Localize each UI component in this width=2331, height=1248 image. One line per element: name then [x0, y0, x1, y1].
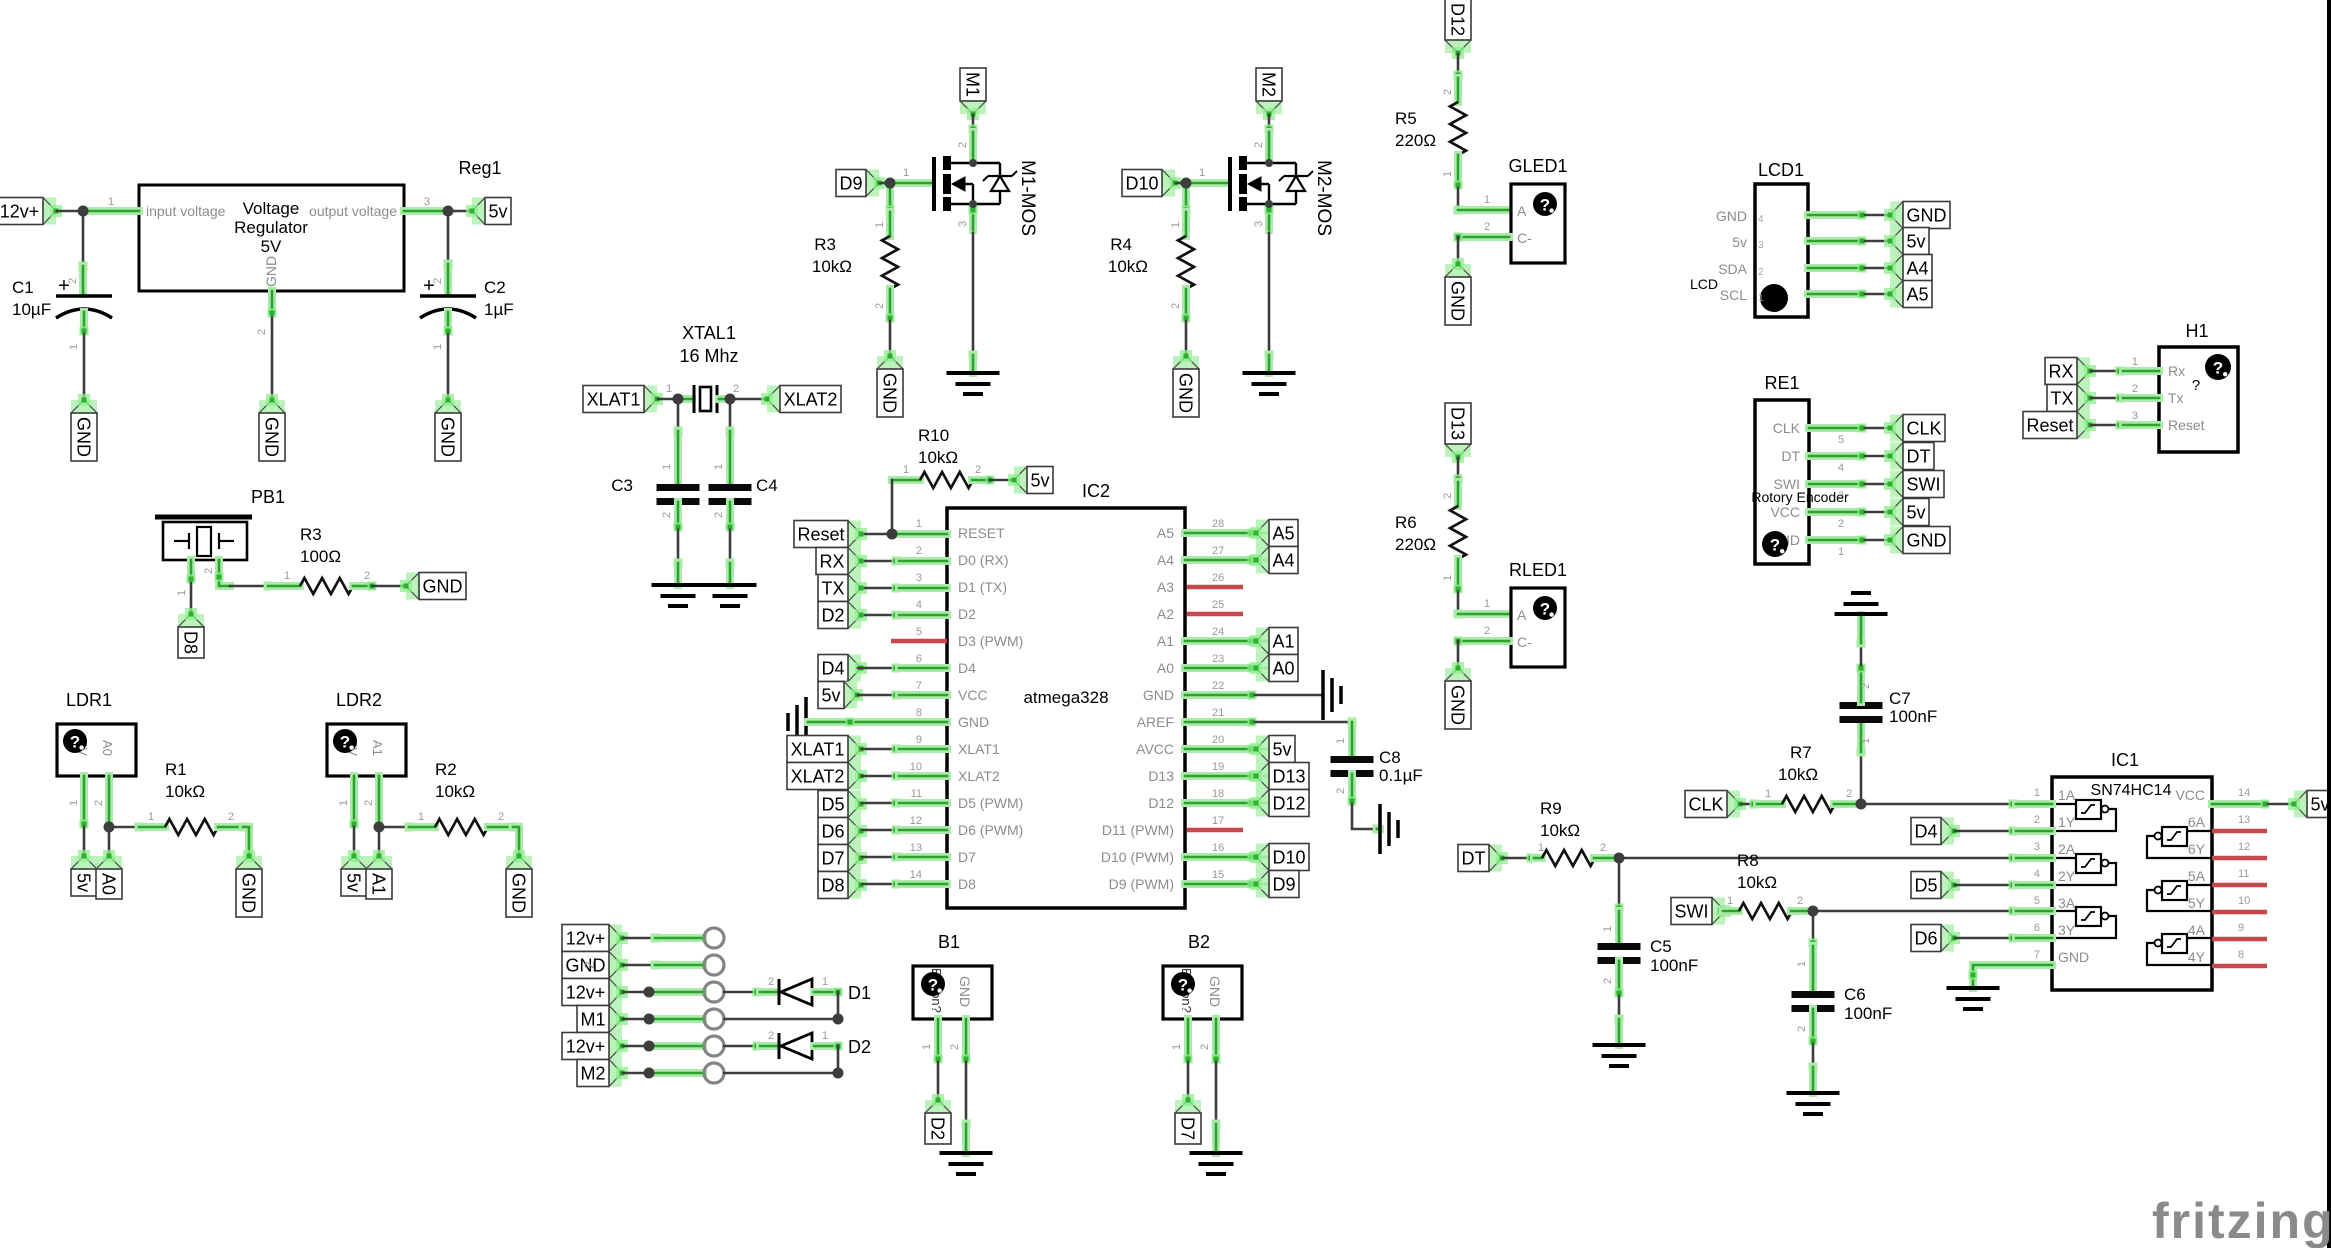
svg-text:?: ?	[1770, 536, 1780, 555]
svg-text:4: 4	[2034, 868, 2040, 880]
svg-text:2: 2	[768, 1030, 774, 1042]
svg-text:1: 1	[1484, 194, 1490, 206]
svg-text:2: 2	[1758, 267, 1764, 278]
svg-text:D10 (PWM): D10 (PWM)	[1101, 849, 1174, 865]
svg-text:23: 23	[1212, 653, 1224, 665]
svg-text:1: 1	[666, 383, 672, 395]
svg-text:1: 1	[176, 590, 188, 596]
svg-text:12: 12	[910, 815, 922, 827]
svg-text:19: 19	[1212, 761, 1224, 773]
svg-text:2: 2	[228, 811, 234, 823]
svg-text:PB1: PB1	[251, 487, 285, 507]
svg-text:CLK: CLK	[1688, 795, 1723, 815]
svg-text:12v+: 12v+	[566, 983, 606, 1003]
svg-text:A5: A5	[1157, 525, 1174, 541]
svg-text:GND: GND	[957, 976, 973, 1007]
svg-text:22: 22	[1212, 680, 1224, 692]
svg-text:C4: C4	[756, 476, 778, 495]
svg-text:10kΩ: 10kΩ	[1737, 873, 1777, 892]
svg-text:Rotory Encoder: Rotory Encoder	[1751, 489, 1849, 505]
svg-text:SDA: SDA	[1718, 261, 1747, 277]
svg-text:5v: 5v	[1906, 503, 1925, 523]
svg-text:4: 4	[916, 599, 922, 611]
svg-text:atmega328: atmega328	[1023, 688, 1108, 707]
svg-text:A0: A0	[1157, 660, 1174, 676]
svg-text:5V: 5V	[261, 237, 282, 256]
svg-text:D1 (TX): D1 (TX)	[958, 579, 1007, 595]
svg-text:0.1µF: 0.1µF	[1379, 766, 1423, 785]
svg-text:2Y: 2Y	[2058, 868, 2076, 884]
svg-text:2: 2	[1253, 142, 1265, 148]
svg-text:1: 1	[1727, 895, 1733, 907]
svg-text:M2: M2	[580, 1064, 605, 1084]
svg-text:1: 1	[874, 222, 886, 228]
svg-text:12v+: 12v+	[566, 929, 606, 949]
svg-text:D7: D7	[1178, 1117, 1198, 1140]
svg-text:2: 2	[581, 961, 597, 969]
svg-text:?: ?	[70, 733, 80, 752]
svg-text:DT: DT	[1781, 448, 1800, 464]
svg-text:fritzing: fritzing	[2152, 1193, 2331, 1248]
svg-text:2: 2	[916, 545, 922, 557]
svg-text:D4: D4	[1914, 822, 1937, 842]
svg-text:VCC: VCC	[2175, 787, 2205, 803]
svg-text:GND: GND	[880, 373, 900, 413]
svg-text:D3 (PWM): D3 (PWM)	[958, 633, 1023, 649]
svg-text:A5: A5	[1272, 524, 1294, 544]
svg-text:1: 1	[1602, 926, 1614, 932]
svg-text:1: 1	[68, 344, 80, 350]
svg-text:SN74HC14: SN74HC14	[2091, 782, 2172, 799]
svg-text:RE1: RE1	[1764, 373, 1799, 393]
svg-text:D11 (PWM): D11 (PWM)	[1102, 822, 1174, 838]
svg-text:18: 18	[1212, 788, 1224, 800]
svg-text:1µF: 1µF	[484, 300, 514, 319]
svg-text:5v: 5v	[74, 873, 94, 892]
svg-text:XLAT1: XLAT1	[587, 390, 641, 410]
svg-text:21: 21	[1212, 707, 1224, 719]
svg-text:SCL: SCL	[1720, 287, 1747, 303]
svg-text:M2-MOS: M2-MOS	[1313, 160, 1334, 236]
svg-text:1: 1	[148, 811, 154, 823]
svg-text:M1-MOS: M1-MOS	[1017, 160, 1038, 236]
svg-text:1: 1	[1538, 842, 1544, 854]
svg-text:D12: D12	[1272, 794, 1305, 814]
svg-text:2: 2	[498, 811, 504, 823]
svg-text:5: 5	[2034, 895, 2040, 907]
svg-text:M2: M2	[1259, 72, 1279, 97]
svg-text:DT: DT	[1907, 447, 1931, 467]
svg-text:GND: GND	[263, 256, 279, 287]
svg-text:RESET: RESET	[958, 525, 1005, 541]
svg-text:D2: D2	[848, 1037, 871, 1057]
svg-text:Reset: Reset	[2026, 416, 2073, 436]
svg-text:?: ?	[1540, 196, 1550, 215]
svg-text:Reset: Reset	[797, 525, 844, 545]
svg-text:16 Mhz: 16 Mhz	[679, 346, 738, 366]
svg-text:VCC: VCC	[958, 687, 988, 703]
svg-text:9: 9	[2238, 922, 2244, 934]
svg-text:5: 5	[1838, 434, 1844, 446]
svg-text:1: 1	[713, 464, 725, 470]
svg-text:R5: R5	[1395, 109, 1417, 128]
svg-text:R10: R10	[918, 426, 949, 445]
svg-text:D8: D8	[181, 631, 201, 654]
svg-text:A1: A1	[370, 740, 385, 756]
svg-text:GND: GND	[438, 417, 458, 457]
svg-text:17: 17	[1212, 815, 1224, 827]
svg-text:D6: D6	[821, 822, 844, 842]
svg-text:?: ?	[1540, 600, 1550, 619]
svg-text:1: 1	[108, 196, 114, 208]
svg-text:2: 2	[874, 303, 886, 309]
svg-text:R8: R8	[1737, 851, 1759, 870]
svg-text:3: 3	[957, 221, 969, 227]
svg-text:100Ω: 100Ω	[300, 547, 341, 566]
svg-text:3: 3	[1758, 240, 1764, 251]
svg-text:2: 2	[1442, 493, 1454, 499]
svg-text:2: 2	[1199, 1044, 1211, 1050]
svg-text:C6: C6	[1844, 985, 1866, 1004]
svg-text:B1: B1	[938, 932, 960, 952]
svg-text:D7: D7	[958, 849, 976, 865]
svg-text:CLK: CLK	[1773, 420, 1801, 436]
svg-text:11: 11	[2238, 868, 2249, 880]
svg-text:SWI: SWI	[1907, 475, 1941, 495]
svg-text:1: 1	[1335, 738, 1347, 744]
svg-text:TX: TX	[821, 579, 844, 599]
svg-text:220Ω: 220Ω	[1395, 131, 1436, 150]
svg-text:8: 8	[2238, 949, 2244, 961]
svg-text:D2: D2	[928, 1117, 948, 1140]
svg-text:1: 1	[903, 167, 909, 179]
svg-text:10: 10	[2238, 895, 2250, 907]
svg-text:A5: A5	[1906, 285, 1928, 305]
svg-text:Voltage: Voltage	[243, 199, 300, 218]
svg-text:RX: RX	[819, 552, 844, 572]
svg-text:1: 1	[1484, 598, 1490, 610]
svg-text:GLED1: GLED1	[1508, 156, 1567, 176]
svg-text:D13: D13	[1272, 767, 1305, 787]
svg-text:3: 3	[424, 196, 430, 208]
svg-text:3: 3	[2132, 410, 2138, 422]
svg-text:6A: 6A	[2188, 814, 2206, 830]
svg-text:SWI: SWI	[1675, 902, 1709, 922]
svg-text:GND: GND	[239, 873, 259, 913]
svg-text:+: +	[423, 275, 435, 297]
svg-text:XLAT2: XLAT2	[791, 767, 845, 787]
svg-text:2: 2	[2034, 814, 2040, 826]
svg-text:3Y: 3Y	[2058, 922, 2076, 938]
svg-text:2: 2	[1335, 788, 1347, 794]
svg-text:2: 2	[661, 512, 673, 518]
svg-text:1: 1	[68, 800, 80, 806]
svg-text:6: 6	[916, 653, 922, 665]
svg-text:1: 1	[1765, 788, 1771, 800]
svg-text:D12: D12	[1148, 795, 1174, 811]
svg-text:100nF: 100nF	[1844, 1004, 1892, 1023]
svg-text:1: 1	[338, 800, 350, 806]
svg-text:7: 7	[2034, 949, 2040, 961]
svg-text:A: A	[1517, 203, 1527, 219]
svg-text:A0: A0	[99, 873, 119, 895]
svg-text:100nF: 100nF	[1650, 956, 1698, 975]
svg-text:?: ?	[2192, 377, 2200, 394]
svg-text:1: 1	[1442, 171, 1454, 177]
svg-text:C-: C-	[1517, 634, 1532, 650]
svg-text:A2: A2	[1157, 606, 1174, 622]
svg-text:D9 (PWM): D9 (PWM)	[1109, 876, 1174, 892]
svg-text:TX: TX	[2050, 389, 2073, 409]
svg-text:4A: 4A	[2188, 922, 2206, 938]
svg-text:2: 2	[2132, 383, 2138, 395]
svg-text:D10: D10	[1272, 848, 1305, 868]
svg-text:5v: 5v	[344, 873, 364, 892]
svg-text:A1: A1	[369, 873, 389, 895]
svg-text:GND: GND	[1716, 208, 1747, 224]
svg-text:9: 9	[916, 734, 922, 746]
svg-text:5: 5	[916, 626, 922, 638]
svg-text:12v+: 12v+	[0, 202, 39, 222]
svg-text:28: 28	[1212, 518, 1224, 530]
svg-text:XTAL1: XTAL1	[682, 323, 736, 343]
svg-text:A1: A1	[1157, 633, 1174, 649]
svg-text:D5 (PWM): D5 (PWM)	[958, 795, 1023, 811]
svg-text:3A: 3A	[2058, 895, 2076, 911]
svg-text:2: 2	[256, 329, 268, 335]
svg-text:2: 2	[1846, 788, 1852, 800]
svg-text:D8: D8	[958, 876, 976, 892]
svg-text:D2: D2	[958, 606, 976, 622]
svg-text:1A: 1A	[2058, 787, 2076, 803]
svg-text:H1: H1	[2185, 321, 2208, 341]
svg-text:2: 2	[957, 142, 969, 148]
svg-text:1: 1	[1171, 1044, 1183, 1050]
svg-text:4Y: 4Y	[2188, 949, 2206, 965]
svg-text:1: 1	[822, 976, 828, 988]
svg-text:VCC: VCC	[1770, 504, 1800, 520]
svg-text:10kΩ: 10kΩ	[812, 257, 852, 276]
svg-text:1: 1	[1442, 575, 1454, 581]
svg-text:10kΩ: 10kΩ	[1778, 765, 1818, 784]
svg-text:GND: GND	[423, 577, 463, 597]
svg-text:2: 2	[1860, 683, 1872, 689]
svg-text:1: 1	[916, 518, 922, 530]
svg-text:2: 2	[768, 976, 774, 988]
svg-text:DT: DT	[1462, 849, 1486, 869]
svg-text:GND: GND	[1207, 976, 1223, 1007]
svg-text:27: 27	[1212, 545, 1224, 557]
svg-text:2: 2	[949, 1044, 961, 1050]
svg-text:IC2: IC2	[1082, 481, 1110, 501]
svg-text:13: 13	[2238, 814, 2250, 826]
svg-text:GND: GND	[262, 417, 282, 457]
svg-text:C8: C8	[1379, 748, 1401, 767]
svg-text:R2: R2	[435, 760, 457, 779]
svg-text:10kΩ: 10kΩ	[1108, 257, 1148, 276]
svg-text:?: ?	[928, 976, 938, 995]
svg-text:GND: GND	[1176, 373, 1196, 413]
svg-text:1: 1	[661, 464, 673, 470]
svg-text:3: 3	[916, 572, 922, 584]
svg-text:R3: R3	[814, 235, 836, 254]
svg-text:1: 1	[1199, 167, 1205, 179]
svg-text:2: 2	[713, 512, 725, 518]
svg-text:GND: GND	[2058, 949, 2089, 965]
svg-text:Reg1: Reg1	[458, 158, 501, 178]
svg-text:D10: D10	[1125, 174, 1158, 194]
svg-text:GND: GND	[1448, 281, 1468, 321]
svg-text:16: 16	[1212, 842, 1224, 854]
svg-text:D7: D7	[821, 849, 844, 869]
svg-text:D0 (RX): D0 (RX)	[958, 552, 1009, 568]
svg-text:GND: GND	[509, 873, 529, 913]
svg-text:1: 1	[921, 1044, 933, 1050]
svg-text:1: 1	[418, 811, 424, 823]
svg-text:2: 2	[1838, 518, 1844, 530]
svg-text:D13: D13	[1148, 768, 1174, 784]
svg-text:5v: 5v	[1906, 232, 1925, 252]
svg-text:4: 4	[1758, 214, 1764, 225]
svg-text:A4: A4	[1906, 259, 1928, 279]
svg-text:2A: 2A	[2058, 841, 2076, 857]
svg-text:R6: R6	[1395, 513, 1417, 532]
svg-text:14: 14	[910, 869, 922, 881]
svg-text:2: 2	[733, 383, 739, 395]
svg-text:10kΩ: 10kΩ	[435, 782, 475, 801]
svg-text:C5: C5	[1650, 937, 1672, 956]
svg-text:D5: D5	[1914, 876, 1937, 896]
svg-text:GND: GND	[1907, 531, 1947, 551]
svg-text:10kΩ: 10kΩ	[1540, 821, 1580, 840]
svg-text:10: 10	[910, 761, 922, 773]
svg-text:D12: D12	[1448, 3, 1468, 36]
svg-text:2: 2	[364, 570, 370, 582]
svg-text:+: +	[58, 275, 70, 297]
svg-text:3: 3	[1253, 221, 1265, 227]
svg-text:5v: 5v	[821, 686, 840, 706]
svg-text:A4: A4	[1272, 551, 1294, 571]
svg-text:?: ?	[2213, 359, 2223, 378]
svg-text:R1: R1	[165, 760, 187, 779]
svg-text:?: ?	[1178, 976, 1188, 995]
svg-text:26: 26	[1212, 572, 1224, 584]
svg-text:1: 1	[1758, 293, 1764, 304]
svg-text:2: 2	[1484, 625, 1490, 637]
svg-text:100nF: 100nF	[1889, 707, 1937, 726]
svg-text:GND: GND	[1143, 687, 1174, 703]
svg-text:XLAT1: XLAT1	[958, 741, 1000, 757]
svg-text:A0: A0	[100, 740, 115, 756]
svg-text:1: 1	[1170, 222, 1182, 228]
svg-text:D1: D1	[848, 983, 871, 1003]
svg-text:Rx: Rx	[2168, 363, 2185, 379]
svg-text:M1: M1	[963, 72, 983, 97]
svg-text:LCD1: LCD1	[1758, 160, 1804, 180]
svg-text:10kΩ: 10kΩ	[165, 782, 205, 801]
svg-text:11: 11	[911, 788, 922, 800]
svg-text:20: 20	[1212, 734, 1224, 746]
svg-text:5A: 5A	[2188, 868, 2206, 884]
svg-text:A: A	[1517, 607, 1527, 623]
svg-text:XLAT2: XLAT2	[958, 768, 1000, 784]
svg-text:5v: 5v	[1732, 234, 1747, 250]
svg-text:2: 2	[1442, 89, 1454, 95]
svg-text:1: 1	[903, 464, 909, 476]
svg-text:GND: GND	[958, 714, 989, 730]
svg-text:Tx: Tx	[2168, 390, 2184, 406]
svg-text:output voltage: output voltage	[309, 203, 397, 219]
svg-text:1Y: 1Y	[2058, 814, 2076, 830]
svg-text:A4: A4	[1157, 552, 1174, 568]
svg-text:5v: 5v	[1030, 471, 1049, 491]
svg-text:D6: D6	[1914, 929, 1937, 949]
svg-text:5Y: 5Y	[2188, 895, 2206, 911]
svg-text:10µF: 10µF	[12, 300, 51, 319]
svg-text:2: 2	[363, 800, 375, 806]
svg-text:12: 12	[2238, 841, 2250, 853]
svg-text:C7: C7	[1889, 689, 1911, 708]
svg-text:LCD: LCD	[1690, 276, 1718, 292]
svg-text:15: 15	[1212, 869, 1224, 881]
svg-text:D9: D9	[1272, 875, 1295, 895]
svg-text:XLAT2: XLAT2	[784, 390, 838, 410]
svg-text:2: 2	[1796, 1026, 1808, 1032]
svg-text:8: 8	[916, 707, 922, 719]
svg-text:CLK: CLK	[1906, 419, 1941, 439]
svg-text:24: 24	[1212, 626, 1224, 638]
svg-text:D6 (PWM): D6 (PWM)	[958, 822, 1023, 838]
svg-text:Reset: Reset	[2168, 417, 2205, 433]
svg-text:IC1: IC1	[2111, 750, 2139, 770]
svg-text:C-: C-	[1517, 230, 1532, 246]
svg-text:RLED1: RLED1	[1509, 560, 1567, 580]
svg-text:R3: R3	[300, 525, 322, 544]
svg-text:3: 3	[2034, 841, 2040, 853]
svg-text:B2: B2	[1188, 932, 1210, 952]
svg-text:1: 1	[284, 570, 290, 582]
svg-text:A1: A1	[1272, 632, 1294, 652]
svg-text:1: 1	[822, 1030, 828, 1042]
svg-text:Regulator: Regulator	[234, 218, 308, 237]
svg-text:LDR2: LDR2	[336, 690, 382, 710]
svg-text:1: 1	[2034, 787, 2040, 799]
svg-text:R4: R4	[1110, 235, 1132, 254]
svg-text:LDR1: LDR1	[66, 690, 112, 710]
svg-text:D4: D4	[821, 659, 844, 679]
svg-text:M1: M1	[580, 1010, 605, 1030]
svg-text:5v: 5v	[488, 202, 507, 222]
svg-text:5v: 5v	[1272, 740, 1291, 760]
svg-text:13: 13	[910, 842, 922, 854]
svg-text:220Ω: 220Ω	[1395, 535, 1436, 554]
svg-text:1: 1	[1860, 738, 1872, 744]
svg-text:D2: D2	[821, 606, 844, 626]
svg-text:10kΩ: 10kΩ	[918, 448, 958, 467]
svg-text:1: 1	[1796, 961, 1808, 967]
svg-text:C1: C1	[12, 278, 34, 297]
svg-text:6Y: 6Y	[2188, 841, 2206, 857]
svg-text:12v+: 12v+	[566, 1037, 606, 1057]
svg-text:D4: D4	[958, 660, 976, 676]
svg-text:1: 1	[432, 344, 444, 350]
svg-text:A0: A0	[1272, 659, 1294, 679]
svg-text:RX: RX	[2048, 362, 2073, 382]
svg-text:D5: D5	[821, 795, 844, 815]
svg-text:AREF: AREF	[1137, 714, 1174, 730]
svg-text:4: 4	[1838, 462, 1844, 474]
svg-text:2: 2	[1484, 221, 1490, 233]
